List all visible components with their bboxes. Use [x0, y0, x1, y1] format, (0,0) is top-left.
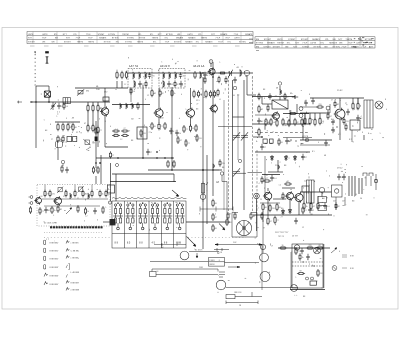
- resistor R81: [274, 216, 276, 224]
- dial cord top run: [215, 244, 262, 246]
- resistor R14: [95, 127, 97, 135]
- resistor R61: [289, 112, 297, 114]
- resistor R99: [317, 202, 319, 210]
- wire W43: [304, 113, 306, 119]
- wire W20: [246, 76, 248, 95]
- svg-text:NTT: NTT: [338, 39, 343, 41]
- svg-text:8: 8: [259, 120, 260, 122]
- resistor R66: [276, 119, 278, 127]
- svg-text:NTT: NTT: [295, 43, 300, 45]
- wire bias v: [329, 104, 331, 113]
- svg-text:39: 39: [282, 245, 284, 247]
- svg-text:4: 4: [318, 142, 319, 144]
- svg-text:8 88: 8 88: [350, 256, 354, 258]
- svg-text:MWAT8: MWAT8: [99, 37, 107, 40]
- transistor T6 AF pre: [271, 111, 279, 120]
- wire mech vertical 1: [261, 245, 263, 291]
- resistor R75: [284, 183, 292, 185]
- variable capacitor gang section C: [233, 168, 246, 176]
- svg-text:8 88 883′: 8 88 883′: [50, 267, 60, 269]
- pilot lamp: [314, 247, 321, 254]
- resistor R87: [352, 102, 354, 110]
- wire tone vertical: [226, 182, 228, 219]
- junction node: [117, 157, 119, 159]
- resistor R34: [151, 89, 153, 97]
- svg-text:T88TM: T88TM: [345, 39, 352, 41]
- wire W58: [91, 185, 93, 192]
- resistor R7: [97, 126, 99, 134]
- svg-text:220: 220: [152, 76, 155, 78]
- wire W32: [289, 110, 291, 124]
- svg-text:7TLF: 7TLF: [234, 34, 239, 36]
- svg-text:Δ8: Δ8: [245, 75, 247, 78]
- svg-text:4.7: 4.7: [320, 206, 323, 208]
- svg-text:220: 220: [346, 121, 349, 123]
- svg-text:4: 4: [258, 208, 259, 210]
- svg-text:27: 27: [263, 227, 265, 229]
- wire W2: [48, 86, 50, 91]
- svg-text:й8: й8: [276, 87, 278, 90]
- trimmer capacitor C1: [51, 102, 56, 110]
- junction node: [95, 162, 97, 164]
- svg-text:220: 220: [320, 273, 323, 275]
- wire feedback: [300, 139, 332, 141]
- svg-text:8 2: 8 2: [349, 139, 352, 141]
- capacitor C23: [356, 115, 359, 121]
- svg-text:27: 27: [195, 136, 197, 138]
- svg-text:220: 220: [309, 245, 312, 247]
- resistor R118: [212, 213, 214, 221]
- wire cord run 2b: [225, 262, 260, 264]
- wire W41: [339, 98, 341, 108]
- capacitor C35: [306, 254, 309, 260]
- resistor R98: [310, 202, 312, 210]
- svg-text:1.2: 1.2: [85, 216, 88, 218]
- svg-text:220: 220: [115, 133, 118, 135]
- svg-text:1k: 1k: [179, 133, 181, 135]
- pointer box: [226, 295, 235, 299]
- wire gang stator 1: [232, 80, 234, 210]
- dial scale bar: [50, 226, 103, 228]
- annotation specks region 3: [211, 62, 253, 96]
- svg-text:4.7: 4.7: [207, 75, 210, 77]
- svg-text:T88TM: T88TM: [88, 42, 95, 44]
- svg-text:C: C: [352, 125, 354, 128]
- svg-text:ETTKN: ETTKN: [104, 42, 111, 44]
- svg-text:STKMT: STKMT: [273, 46, 281, 48]
- resistor R95: [343, 117, 345, 124]
- coil L3: [145, 72, 146, 79]
- resistor R42: [217, 89, 219, 97]
- resistor R25: [225, 76, 227, 83]
- resistor R47: [121, 130, 129, 132]
- svg-text:68: 68: [319, 245, 321, 247]
- resistor R35: [159, 89, 161, 97]
- svg-text:7TLF: 7TLF: [341, 46, 347, 48]
- svg-text:T88TM: T88TM: [152, 38, 159, 40]
- switch section K5: [163, 203, 173, 230]
- capacitor C8: [203, 72, 206, 78]
- resistor R93: [345, 123, 347, 131]
- resistor R5: [87, 124, 89, 132]
- dimension line: [226, 301, 258, 305]
- svg-text:MWAT8: MWAT8: [185, 41, 193, 44]
- svg-text:A2: A2: [261, 108, 263, 111]
- pulley small: [260, 244, 265, 249]
- chassis dash line left: [44, 237, 110, 239]
- svg-text:1.2: 1.2: [115, 129, 118, 131]
- resistor R55: [227, 212, 229, 220]
- switch wafer scallop line: [112, 197, 186, 198]
- svg-text:ETTKN: ETTKN: [112, 38, 119, 40]
- resistor R36: [171, 89, 173, 97]
- svg-text:7TLF: 7TLF: [86, 34, 91, 36]
- dipole antenna stub: [46, 52, 49, 64]
- svg-text:1.2: 1.2: [69, 123, 72, 125]
- resistor R88: [357, 102, 359, 110]
- transistor T4 IF amp 2: [185, 108, 194, 119]
- wire W42: [327, 110, 329, 114]
- gang frame left rail: [223, 100, 225, 210]
- transistor T9 output: [294, 192, 303, 203]
- annotation specks region 13: [61, 123, 99, 147]
- svg-text:Δ8: Δ8: [71, 125, 73, 128]
- left edge pointer: [17, 101, 22, 104]
- resistor R82: [302, 206, 304, 214]
- svg-text:c 88 88т: c 88 88т: [71, 243, 79, 245]
- svg-text:4: 4: [259, 183, 260, 185]
- svg-text:STKMT: STKMT: [288, 39, 296, 41]
- resistor R30: [164, 122, 166, 130]
- svg-text:5: 5: [177, 223, 178, 225]
- resistor R125: [299, 253, 301, 261]
- diode module: [55, 141, 62, 148]
- resistor R73: [263, 180, 271, 182]
- svg-text:5: 5: [286, 198, 287, 200]
- electrolytic capacitor C20: [299, 107, 303, 118]
- gang frame right rail: [256, 150, 258, 212]
- transistor T10 power output: [334, 108, 345, 121]
- headphone jack: [318, 187, 326, 210]
- wire af link4: [273, 198, 286, 200]
- junction node: [212, 169, 214, 171]
- svg-text:1k: 1k: [174, 93, 176, 95]
- coil L16: [278, 164, 279, 169]
- wire to trafo: [345, 97, 364, 99]
- wire switch feed: [112, 173, 174, 175]
- resistor R64: [265, 118, 267, 126]
- svg-text:ETTKN: ETTKN: [256, 43, 263, 45]
- ground dash line: [255, 132, 310, 134]
- wire W9: [92, 110, 94, 126]
- annotation specks region 5: [255, 173, 329, 247]
- wire W48: [339, 119, 341, 140]
- capacitor C22: [331, 127, 334, 133]
- resistor R41: [213, 90, 215, 98]
- drive drum box: [209, 258, 225, 267]
- svg-text:82: 82: [264, 180, 266, 182]
- scale baseline (dotted): [44, 232, 103, 234]
- wire W5: [92, 102, 94, 106]
- wire W31: [261, 97, 263, 104]
- svg-text:7TLF: 7TLF: [215, 38, 220, 40]
- resistor R96: [316, 106, 324, 108]
- module box B1: [67, 137, 72, 142]
- svg-text:25: 25: [260, 199, 262, 201]
- wire T8 emitter: [289, 200, 291, 208]
- table sub-divider: [154, 243, 186, 246]
- resistor R39: [205, 90, 207, 98]
- svg-text:7TLF: 7TLF: [348, 43, 354, 45]
- resistor R62: [258, 105, 260, 113]
- svg-text:68: 68: [154, 126, 156, 128]
- coil L14: [213, 163, 214, 168]
- junction node: [290, 139, 291, 140]
- wire af bias row: [260, 202, 280, 204]
- svg-text:8M: 8M: [256, 39, 259, 41]
- svg-text:LWT8: LWT8: [356, 43, 362, 45]
- pointer arrow AB: [219, 224, 225, 230]
- tuning drum: [236, 220, 251, 235]
- svg-text:MWAT8: MWAT8: [205, 41, 213, 44]
- svg-text:1k: 1k: [54, 210, 56, 212]
- svg-text:4.7: 4.7: [266, 178, 269, 180]
- svg-text:8M: 8M: [256, 46, 259, 48]
- resistor R74: [261, 176, 263, 184]
- resistor R71: [278, 138, 280, 146]
- junction node: [156, 157, 158, 159]
- svg-text:STKMT: STKMT: [263, 46, 271, 48]
- tick line: [214, 248, 229, 251]
- resistor R104: [74, 190, 76, 198]
- svg-text:27: 27: [161, 126, 163, 128]
- fuse F1: [374, 174, 377, 190]
- svg-text:4: 4: [181, 94, 182, 96]
- svg-text:Δ8: Δ8: [352, 200, 354, 203]
- wire W26: [173, 174, 175, 182]
- screw symbol: [332, 266, 337, 271]
- drum mounting frame: [232, 213, 257, 238]
- svg-text:F1881: F1881: [210, 260, 215, 262]
- resistor R122: [295, 247, 297, 255]
- resistor R22: [174, 80, 176, 87]
- svg-text:STKMT: STKMT: [174, 42, 182, 44]
- svg-text:1.2: 1.2: [181, 85, 184, 87]
- wire W18: [121, 81, 123, 88]
- wire W13: [55, 121, 80, 123]
- coil L4: [134, 80, 135, 87]
- resistor R13: [62, 135, 64, 143]
- wire W45: [314, 113, 316, 120]
- svg-text:82: 82: [338, 206, 340, 208]
- wire W3: [48, 97, 50, 102]
- wire T7 emitter: [267, 200, 269, 217]
- wire trafo down 2: [344, 197, 346, 205]
- transistor T5 AM det: [209, 104, 217, 113]
- capacitor C13: [268, 93, 271, 99]
- svg-text:Δ8: Δ8: [357, 107, 359, 110]
- svg-text:ETTKN: ETTKN: [314, 46, 321, 48]
- capacitor C32: [44, 207, 47, 213]
- wire gang stator 2: [243, 80, 245, 210]
- svg-text:27: 27: [92, 141, 94, 143]
- svg-text:5: 5: [139, 84, 140, 86]
- svg-text:4: 4: [59, 199, 60, 201]
- module box driver trafo: [350, 120, 360, 130]
- annotation specks region 8: [40, 188, 109, 223]
- output transformer: [307, 180, 315, 203]
- svg-text:27: 27: [188, 143, 190, 145]
- resistor R54: [196, 134, 198, 142]
- wire W1: [36, 85, 49, 87]
- resistor R56: [234, 212, 236, 220]
- svg-text:A2: A2: [98, 130, 100, 133]
- ground dashes: [265, 143, 304, 145]
- wire output ground bus: [253, 214, 332, 216]
- svg-text:7TLF: 7TLF: [225, 38, 230, 40]
- svg-text:A2: A2: [287, 180, 289, 183]
- wire detector bus b: [283, 123, 310, 125]
- wire W59: [103, 221, 110, 223]
- svg-text:8: 8: [201, 89, 202, 91]
- svg-text:1k: 1k: [87, 211, 89, 213]
- wire fb 2: [300, 144, 330, 146]
- module box B6: [310, 281, 316, 285]
- variable capacitor C9: [228, 70, 233, 78]
- wire W14: [57, 148, 59, 160]
- resistor R115: [102, 206, 104, 214]
- resistor R60: [284, 93, 286, 100]
- resistor R91: [314, 118, 316, 126]
- coil L13: [132, 103, 133, 109]
- svg-text:27: 27: [196, 104, 198, 106]
- coil L11: [120, 103, 121, 109]
- resistor R28: [151, 122, 153, 130]
- wire AGC bus: [148, 169, 222, 171]
- capacitor C6: [167, 81, 170, 87]
- node AGC tap: [305, 138, 309, 142]
- legend symbol diode 2: [66, 249, 69, 252]
- svg-text:27: 27: [277, 220, 279, 222]
- pulley P-right-low: [260, 272, 270, 282]
- svg-text:STKMT: STKMT: [28, 42, 36, 44]
- legend symbol valve 5: [44, 273, 48, 276]
- diode D3: [293, 155, 296, 161]
- coil can filter: [63, 98, 70, 104]
- resistor R12: [57, 135, 59, 143]
- svg-text:220: 220: [222, 163, 225, 165]
- transistor T12 FM mixer: [53, 196, 62, 206]
- svg-text:8: 8: [219, 260, 220, 262]
- resistor R68: [288, 119, 290, 127]
- resistor R124: [317, 269, 319, 277]
- svg-text:5: 5: [105, 207, 106, 209]
- wire W22: [158, 88, 160, 109]
- gang mid rail: [237, 95, 239, 160]
- resistor R52: [177, 136, 179, 144]
- dimension bracket: [152, 269, 218, 272]
- svg-text:1.2: 1.2: [304, 180, 307, 182]
- transformer core bars: [349, 176, 362, 196]
- svg-text:68: 68: [300, 271, 302, 273]
- mains transformer: [332, 185, 343, 197]
- resistor R103: [65, 190, 67, 198]
- wire W30: [262, 103, 272, 105]
- resistor R26: [204, 76, 206, 84]
- svg-text:8: 8: [308, 173, 309, 175]
- resistor R44: [137, 102, 139, 110]
- svg-text:39: 39: [171, 84, 173, 86]
- svg-text:1.2: 1.2: [321, 123, 324, 125]
- capacitor C26: [331, 119, 334, 125]
- legend symbol valve 1: [44, 240, 46, 244]
- svg-text:ETTKN: ETTKN: [333, 46, 340, 48]
- wire W56: [44, 185, 46, 192]
- wire gang crossing bus: [218, 126, 252, 128]
- electrolytic capacitor C5: [95, 137, 98, 142]
- wire detector bus a: [253, 123, 272, 125]
- svg-text:72: 72: [297, 146, 299, 148]
- wire det link: [283, 113, 309, 115]
- wire supply negative rail: [300, 191, 332, 193]
- wire W54: [310, 192, 312, 204]
- switch section K1: [113, 203, 123, 230]
- svg-text:48: 48: [324, 155, 326, 157]
- svg-text:ETTKN: ETTKN: [166, 34, 173, 36]
- wire W15: [95, 176, 97, 184]
- resistor R121: [219, 159, 221, 167]
- resistor R37: [193, 90, 195, 98]
- svg-text:4: 4: [294, 113, 295, 115]
- wire IF input link: [112, 104, 150, 106]
- crystal box: [83, 139, 90, 145]
- wire W50: [357, 98, 359, 104]
- transistor T7 driver: [263, 191, 272, 201]
- capacitor C12: [146, 149, 149, 155]
- coil L9: [200, 71, 201, 78]
- wire W24: [158, 117, 160, 124]
- wire supply link: [278, 247, 330, 249]
- wire W23: [190, 88, 192, 109]
- resistor R123: [297, 272, 305, 274]
- header spare row dashes: [30, 45, 240, 47]
- capacitor C2: [65, 167, 68, 173]
- wire W12: [97, 132, 99, 147]
- resistor R51: [173, 160, 175, 168]
- svg-text:W: W: [229, 214, 231, 216]
- resistor R65: [270, 118, 272, 126]
- annotation specks region 9: [119, 202, 178, 231]
- svg-text:LWT8: LWT8: [277, 39, 283, 41]
- resistor R10: [67, 123, 69, 131]
- spring box: [150, 272, 157, 277]
- wire W57: [74, 185, 76, 192]
- svg-text:5: 5: [185, 109, 186, 111]
- capacitor C30: [342, 174, 345, 180]
- svg-text:5.6: 5.6: [327, 206, 330, 208]
- varactor arrow: [66, 208, 72, 214]
- resistor R2: [87, 104, 89, 112]
- svg-text:8 88 882′: 8 88 882′: [50, 259, 60, 261]
- wire cord top-left run: [189, 251, 219, 253]
- svg-text:220: 220: [199, 138, 202, 140]
- wire IF supply rail: [128, 72, 253, 74]
- svg-text:220: 220: [272, 208, 275, 210]
- svg-text:STKMT: STKMT: [301, 39, 309, 41]
- svg-text:5.6: 5.6: [273, 122, 276, 124]
- wire W47: [302, 124, 304, 140]
- resistor R32: [189, 124, 191, 132]
